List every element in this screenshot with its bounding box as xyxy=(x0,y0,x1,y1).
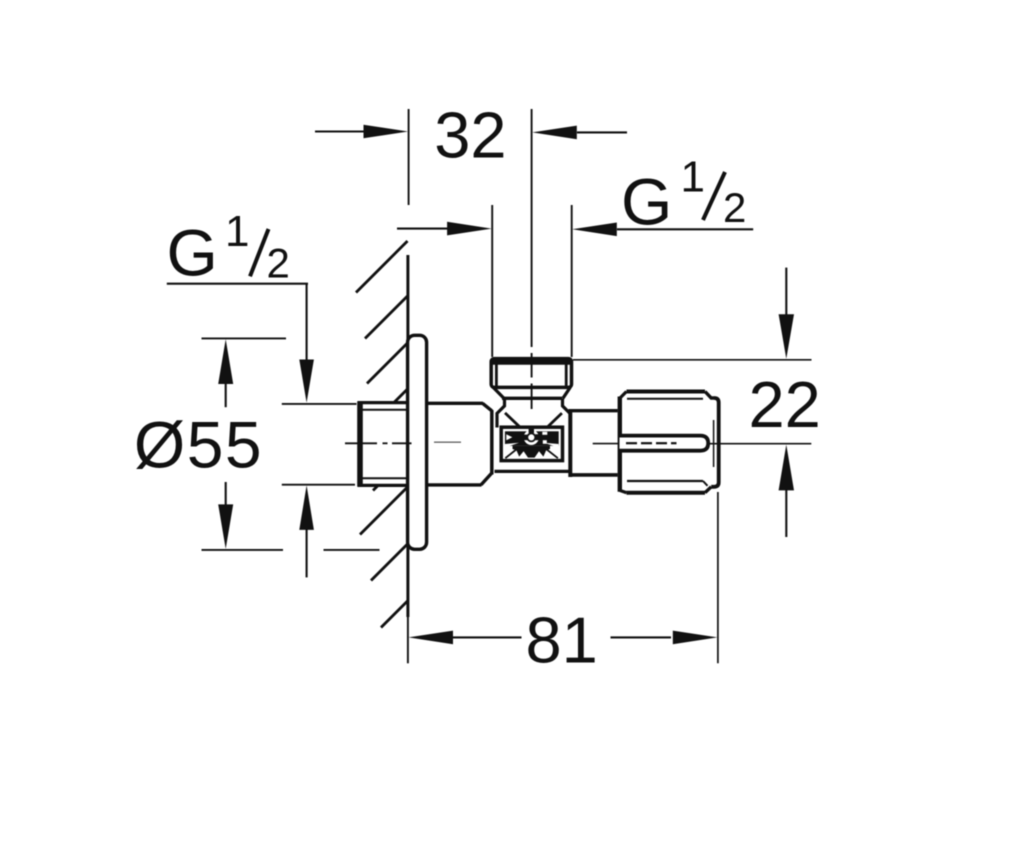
svg-text:Ø55: Ø55 xyxy=(134,407,263,481)
bonnet funnel xyxy=(493,387,570,427)
body neck behind rosette xyxy=(427,403,492,485)
dimension 32 xyxy=(315,99,627,206)
svg-text:2: 2 xyxy=(267,239,290,286)
top port thread collar G1/2 xyxy=(491,359,571,388)
label G 1/2 left with leader xyxy=(167,207,357,577)
rosette flange xyxy=(408,335,427,549)
body bottom line under block xyxy=(495,470,570,473)
svg-text:2: 2 xyxy=(723,184,746,231)
dimension 81 xyxy=(408,492,718,677)
wall face line xyxy=(406,255,409,617)
wall hatching xyxy=(356,241,408,628)
dimension 22 xyxy=(573,268,821,537)
handle (knurled cap) xyxy=(620,392,719,493)
svg-text:81: 81 xyxy=(526,604,598,677)
horizontal centerline xyxy=(345,442,811,444)
svg-text:1: 1 xyxy=(681,153,705,202)
valve cartridge block xyxy=(501,427,562,460)
svg-text:32: 32 xyxy=(434,99,506,172)
svg-text:G: G xyxy=(167,216,218,290)
svg-text:1: 1 xyxy=(225,207,249,256)
outlet neck xyxy=(569,410,618,477)
handle slot xyxy=(620,436,709,451)
dimension G1/2 top xyxy=(397,153,753,358)
svg-text:22: 22 xyxy=(749,368,821,441)
vertical port centerline / 32 extension xyxy=(531,109,533,409)
svg-text:G: G xyxy=(621,164,672,238)
inlet thread G1/2 (wall nipple) xyxy=(358,402,410,487)
dimension diameter 55 xyxy=(134,338,380,550)
